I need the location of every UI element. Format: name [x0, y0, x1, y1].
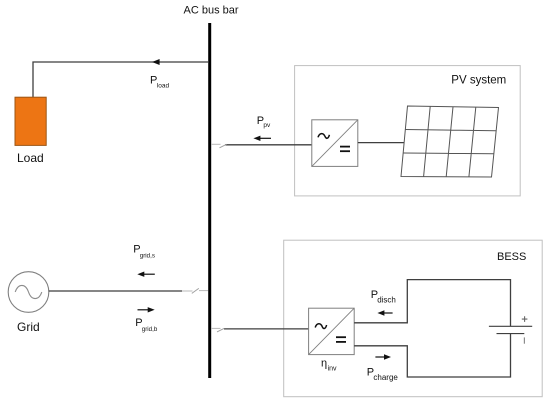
- break slash on grid wire: [192, 288, 199, 293]
- label P_grid,b: [135, 317, 158, 333]
- arrow P_grid,b: [138, 307, 155, 312]
- battery minus terminal label: [523, 337, 525, 343]
- wire bess (bus bar to inverter U2): [211, 327, 309, 330]
- arrow P_grid,s: [137, 272, 155, 277]
- svg-text:BESS: BESS: [497, 251, 526, 263]
- svg-text:Grid: Grid: [17, 320, 40, 334]
- inverter U1 (PV): [312, 120, 358, 167]
- wire load (bus bar to Load): [33, 62, 208, 97]
- break slash on pv wire: [220, 144, 227, 148]
- wire inverter U1 to PV panel: [358, 142, 406, 144]
- wire grid (circle to bus bar): [49, 290, 208, 292]
- svg-text:grid,s: grid,s: [140, 253, 155, 260]
- load block: [15, 97, 46, 145]
- svg-text:charge: charge: [373, 373, 398, 382]
- svg-text:inv: inv: [328, 366, 337, 373]
- arrow P_disch: [377, 310, 392, 315]
- label eta_inv: [321, 357, 337, 372]
- label P_disch: [371, 289, 396, 305]
- arrow P_charge: [375, 354, 391, 359]
- AC source G1 (grid circle): [8, 272, 49, 313]
- battery plus terminal label: [522, 316, 528, 322]
- label P_pv: [257, 115, 271, 129]
- svg-text:grid,b: grid,b: [142, 326, 158, 333]
- label P_charge: [367, 367, 399, 382]
- BESS enclosure: [284, 240, 543, 397]
- wire pv (bus bar to inverter U1): [211, 143, 312, 146]
- svg-text:AC bus bar: AC bus bar: [184, 5, 239, 17]
- svg-text:pv: pv: [263, 122, 271, 129]
- label P_grid,s: [133, 243, 155, 259]
- AC bus bar: [208, 23, 211, 378]
- svg-text:η: η: [321, 357, 327, 369]
- arrow P_load: [152, 59, 160, 65]
- wire charge (inverter U2 bottom to battery loop): [354, 334, 510, 377]
- label P_load: [150, 74, 169, 89]
- svg-text:load: load: [157, 82, 170, 89]
- battery B1: [489, 326, 532, 333]
- wire discharge (inverter U2 top to battery loop): [354, 280, 510, 327]
- arrow P_pv: [253, 136, 271, 141]
- PV system enclosure: [295, 66, 521, 196]
- inverter U2 (BESS): [309, 308, 355, 354]
- svg-text:disch: disch: [377, 296, 396, 305]
- PV panel PV1: [401, 106, 499, 177]
- break slash on bess wire: [217, 328, 224, 332]
- svg-text:PV system: PV system: [451, 75, 506, 87]
- svg-text:Load: Load: [17, 151, 44, 165]
